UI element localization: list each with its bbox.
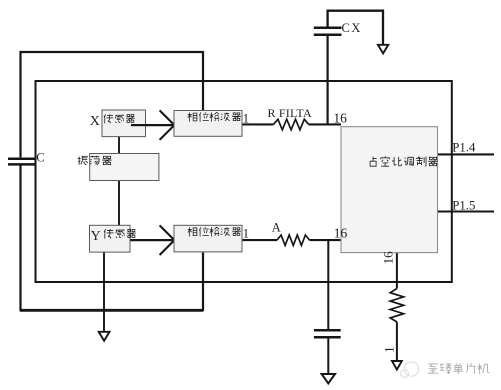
capacitor C (series in left rail) bbox=[8, 159, 35, 165]
label phase detector 2 bbox=[188, 225, 249, 240]
buffer arrow X channel bbox=[160, 110, 175, 139]
wire outer feedback loop bottom-left: left rail to phase detector 2 bottom bbox=[21, 166, 204, 311]
ground (bottom filter) bbox=[322, 374, 335, 383]
label X sensor bbox=[90, 114, 135, 129]
svg-text:C: C bbox=[36, 151, 44, 165]
wire phase detector 2 to resistor A bbox=[242, 239, 277, 241]
svg-text:16: 16 bbox=[334, 225, 348, 240]
block duty-cycle modulator U1 bbox=[341, 127, 438, 253]
block X sensor bbox=[102, 110, 146, 137]
buffer arrow Y channel bbox=[160, 225, 175, 255]
wire P1.4 bbox=[438, 153, 495, 155]
svg-text:R FILTA: R FILTA bbox=[268, 106, 312, 120]
wire modulator bottom pin 16 bbox=[396, 253, 398, 289]
wire X sensor to oscillator bbox=[118, 137, 120, 154]
wire outer feedback loop top-left: phase detector 1 top to left rail bbox=[21, 52, 204, 157]
svg-text:1: 1 bbox=[381, 346, 396, 353]
label duty-cycle modulator bbox=[370, 156, 438, 166]
capacitor CX bbox=[314, 28, 342, 35]
wire filter capacitor to ground bbox=[327, 337, 329, 374]
wire A node down to filter capacitor bbox=[327, 240, 329, 329]
wire outer loop bottom emphasis bbox=[20, 309, 203, 312]
wire CX top to ground drop bbox=[328, 11, 383, 45]
svg-text:P1.4: P1.4 bbox=[452, 141, 476, 155]
wire pin16 node up to capacitor CX bbox=[327, 35, 329, 124]
svg-text:16: 16 bbox=[333, 110, 347, 125]
wire bias resistor to ground bbox=[396, 322, 398, 361]
ground (bias resistor) bbox=[392, 361, 402, 370]
label oscillator bbox=[78, 156, 112, 165]
wire X sensor output bbox=[131, 124, 174, 126]
wire X sensor output inner stub bbox=[131, 124, 146, 126]
svg-text:CX: CX bbox=[342, 21, 362, 35]
node shield rectangle (inner enclosure) bbox=[36, 81, 452, 282]
wire Y sensor to ground bbox=[103, 252, 105, 332]
wire resistor RFILTA to modulator pin 16 bbox=[309, 123, 341, 125]
ground (below Y sensor) bbox=[99, 332, 110, 341]
svg-text:A: A bbox=[272, 221, 281, 235]
capacitor (bottom filter) bbox=[314, 330, 341, 337]
wire P1.5 bbox=[438, 210, 495, 212]
wire phase detector 1 to resistor RFILTA bbox=[242, 123, 274, 125]
wire resistor A to modulator pin 16 lower bbox=[310, 239, 342, 241]
svg-text:1: 1 bbox=[243, 225, 250, 240]
svg-text:X: X bbox=[90, 114, 100, 129]
resistor R FILTA bbox=[274, 119, 309, 130]
svg-text:1: 1 bbox=[243, 111, 250, 126]
svg-text:Y: Y bbox=[91, 229, 101, 244]
ground (top right, CX return) bbox=[378, 45, 388, 54]
svg-text:16: 16 bbox=[381, 251, 396, 265]
block Y sensor bbox=[90, 225, 131, 252]
resistor (bottom bias) bbox=[390, 289, 403, 323]
block phase detector 2 bbox=[174, 225, 242, 252]
label Y sensor bbox=[91, 229, 136, 244]
label phase detector 1 bbox=[188, 111, 249, 126]
svg-text:P1.5: P1.5 bbox=[452, 198, 475, 212]
wire oscillator to Y sensor bbox=[118, 180, 120, 225]
wire Y sensor output bbox=[130, 239, 174, 241]
watermark logo bbox=[401, 362, 419, 378]
block phase detector 1 bbox=[174, 111, 242, 137]
block oscillator bbox=[90, 154, 159, 181]
resistor A bbox=[277, 235, 310, 245]
watermark text bbox=[428, 363, 489, 374]
